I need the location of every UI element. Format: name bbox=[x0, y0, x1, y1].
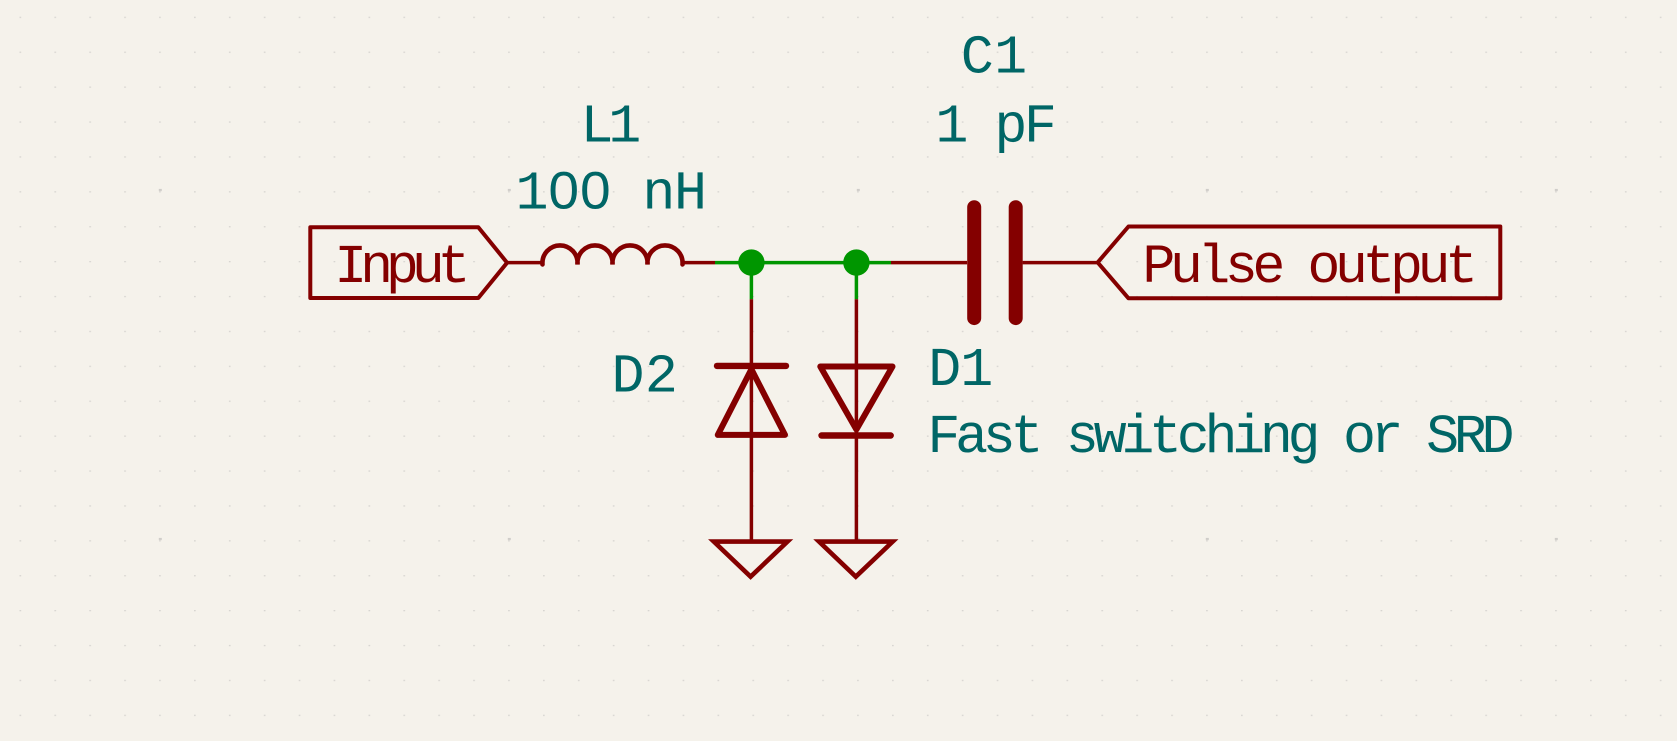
junction node right bbox=[843, 249, 869, 275]
wire green stub to D1 bbox=[855, 263, 859, 300]
diode D2 bbox=[717, 366, 786, 435]
wire: inductor to green net bbox=[682, 261, 715, 265]
svg-text:Pulse output: Pulse output bbox=[1142, 236, 1473, 299]
wire green horizontal net bbox=[715, 261, 891, 265]
wire: to D1 pin bbox=[855, 299, 859, 541]
wire: C1 to Pulse output bbox=[1023, 261, 1098, 265]
svg-text:Input: Input bbox=[334, 236, 465, 299]
wire green stub to D2 bbox=[750, 263, 754, 300]
svg-text:D2: D2 bbox=[612, 346, 679, 409]
wire: green net to C1 bbox=[891, 261, 967, 265]
ground for D1 bbox=[819, 542, 893, 577]
svg-text:C1: C1 bbox=[961, 27, 1028, 90]
junction node left bbox=[738, 249, 764, 275]
wire: Input tip to inductor bbox=[507, 261, 543, 265]
diode D1 bbox=[820, 367, 892, 436]
capacitor C1 bbox=[974, 207, 1016, 318]
hierarchical label Input bbox=[310, 227, 507, 298]
svg-text:Fast switching or SRD: Fast switching or SRD bbox=[927, 406, 1512, 469]
ground for D2 bbox=[714, 542, 788, 577]
svg-text:L1: L1 bbox=[581, 96, 640, 159]
svg-text:D1: D1 bbox=[928, 339, 992, 402]
svg-text:1 pF: 1 pF bbox=[935, 96, 1054, 159]
svg-text:100 nH: 100 nH bbox=[516, 163, 706, 226]
inductor L1 bbox=[542, 245, 682, 264]
hierarchical label Pulse output bbox=[1098, 227, 1501, 299]
wire: to D2 pin bbox=[750, 299, 754, 541]
